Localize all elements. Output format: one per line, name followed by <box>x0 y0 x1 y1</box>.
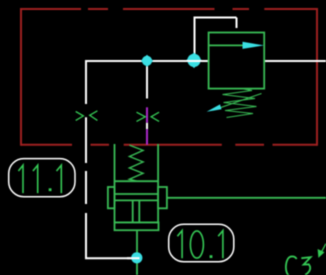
node B: cyan junction dot on valve outlet <box>131 252 142 263</box>
wire: hidden (dashed) white line below left orifice down to bottom corner <box>85 117 87 258</box>
orifice (right) green opposed arrowheads <box>137 112 160 121</box>
wire: white supply line segment over diamond node <box>186 60 203 62</box>
label text 10.1 (green CAD strokes) <box>177 231 223 259</box>
wire: magenta highlighted pilot line upper segment <box>146 107 148 122</box>
reducing valve: bottom end plate <box>115 222 159 230</box>
label text 11.1 (green CAD strokes) <box>18 165 61 193</box>
wire: white pilot loop vertical from diamond node up <box>194 18 196 58</box>
enclosure dashed red border, bottom edge <box>21 144 317 146</box>
wire: white branch from node A down to right orifice <box>146 65 148 99</box>
reducing valve: right port tab <box>158 187 167 208</box>
leader arrow to C3 <box>318 244 326 257</box>
reducing valve: spring chamber walls <box>115 144 159 222</box>
wire: white bottom horizontal run to node B <box>85 257 137 259</box>
relief valve adjustment arrow shaft <box>213 94 262 111</box>
relief valve body (green square) <box>209 33 265 89</box>
wire: white segment within magenta pilot line <box>146 123 148 129</box>
enclosure red border, right edge <box>316 8 318 146</box>
wire: main white supply line (horizontal, right of relief valve to edge) <box>264 60 326 62</box>
wire: magenta highlighted pilot line lower segment to valve <box>146 129 148 145</box>
label balloon 10.1 (white stadium) <box>169 224 234 261</box>
reducing valve: spring (vertical zigzag) <box>129 145 143 181</box>
wire: white pilot loop drop to relief valve top <box>236 18 238 29</box>
port label C3 (partially cut at bottom edge) <box>286 256 311 275</box>
relief valve flow path line <box>209 44 246 46</box>
enclosure red border, left edge <box>20 8 22 146</box>
reducing valve: inner poppet guides <box>133 200 140 222</box>
wire: green outlet line down from valve to node B and bottom edge <box>136 230 138 275</box>
enclosure dashed red border (subplate outline), top edge <box>21 8 317 10</box>
relief valve flow arrow head (cyan) <box>243 42 265 49</box>
wire: white branch down-left from supply line <box>85 60 87 104</box>
node: cyan diamond junction (pilot tap) <box>186 53 202 69</box>
reducing valve: left port tab <box>108 187 115 208</box>
reducing valve: body horizontal partitions <box>115 181 159 222</box>
node A: cyan junction dot on supply line <box>141 55 153 67</box>
wire: white pilot loop horizontal top <box>194 17 237 19</box>
wire: green output line to the right edge <box>167 197 326 199</box>
relief valve adjustment arrow head (cyan) <box>207 104 222 111</box>
relief valve adjustable spring (slanted zigzag) <box>223 89 257 118</box>
wire: white stub over node B <box>127 257 140 259</box>
label balloon 11.1 (white stadium) <box>9 159 75 197</box>
orifice (left) green opposed arrowheads <box>76 111 98 121</box>
wire: main white supply line (horizontal, left of relief valve) <box>86 60 209 62</box>
